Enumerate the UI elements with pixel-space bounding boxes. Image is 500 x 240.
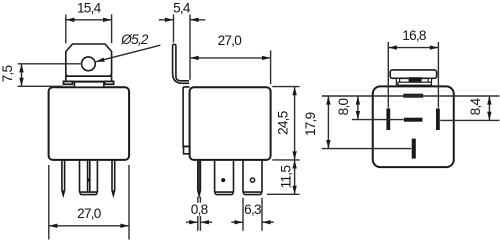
dim 7,5 ext lines	[18, 64, 81, 87]
dim 17,9 line	[327, 96, 329, 149]
dim 17,9 bottom ext line	[322, 148, 412, 150]
relay body (front view)	[49, 87, 130, 160]
svg-text:16,8: 16,8	[402, 28, 426, 43]
svg-text:27,0: 27,0	[218, 33, 243, 48]
shared top ext line	[322, 95, 500, 97]
dim 0,8 line with outside arrows	[186, 221, 212, 223]
bracket lower band	[66, 76, 112, 81]
svg-text:5,4: 5,4	[173, 1, 191, 16]
bracket right foot	[105, 81, 114, 84]
dim 15,4 ext lines	[66, 14, 112, 43]
slot 30 (center)	[404, 118, 423, 122]
bracket left foot	[64, 81, 73, 84]
dim 8,4 bottom ext line	[440, 119, 499, 121]
dim 24,5 line	[294, 87, 296, 160]
bracket hole	[82, 57, 96, 71]
slot 86 (top)	[403, 94, 423, 98]
dim 6,3 line with outside arrows	[231, 221, 274, 223]
cap left tab	[396, 78, 399, 84]
slot 85 (left)	[386, 108, 390, 130]
svg-text:15,4: 15,4	[77, 1, 102, 16]
svg-text:8,0: 8,0	[336, 97, 351, 115]
bracket strap seat	[75, 82, 104, 87]
dim 16,8 ext lines	[388, 42, 438, 108]
slot 85b (right)	[436, 108, 440, 130]
dim 24,5 / 11,5 ext lines	[267, 87, 300, 195]
side latch tab	[184, 146, 190, 153]
dim 8,0 bottom ext line	[352, 119, 404, 121]
svg-text:8,4: 8,4	[468, 97, 483, 115]
cap right tab	[428, 78, 431, 84]
svg-text:0,8: 0,8	[191, 202, 208, 217]
dim 0,8 ext lines	[198, 197, 201, 231]
dim 8,0 line	[357, 96, 359, 120]
dim 5,4 line with outside arrows	[159, 19, 205, 21]
pin 85 thin (front, right)	[112, 160, 115, 195]
svg-text:24,5: 24,5	[275, 111, 290, 135]
svg-text:Ø5,2: Ø5,2	[120, 32, 149, 47]
svg-text:7,5: 7,5	[0, 65, 15, 82]
dim 5,4 ext lines	[174, 14, 191, 79]
dim 16,8 line	[388, 47, 438, 49]
relay body (bottom view)	[373, 86, 454, 167]
relay body (side view)	[190, 87, 271, 160]
dim 27,0 front line	[49, 225, 129, 227]
pin 86 thin (side view)	[198, 160, 201, 196]
dim 11,5 line	[294, 160, 296, 194]
dim 27,0 side ext line right	[270, 50, 272, 84]
dim 27,0 side line	[190, 57, 271, 59]
pin 87 blade (side view, open hole)	[243, 160, 262, 195]
cap lower strip	[398, 82, 432, 85]
svg-text:17,9: 17,9	[303, 112, 318, 136]
dim 27,0 front ext lines	[49, 165, 129, 240]
dim 8,4 line	[488, 96, 490, 120]
mounting bracket face	[66, 44, 112, 76]
dim 15,4 line	[66, 19, 112, 21]
svg-text:6,3: 6,3	[244, 202, 261, 217]
pins 30/87 blades (front, middle)	[80, 160, 98, 192]
svg-text:27,0: 27,0	[77, 206, 102, 221]
slot 87a (bottom)	[412, 139, 416, 159]
bracket cap (bottom view)	[390, 70, 436, 78]
side latch plate	[183, 87, 190, 146]
cap strap bar	[409, 77, 422, 82]
blade hole dot (front)	[87, 178, 90, 181]
bracket strip (side view)	[173, 44, 189, 83]
label diameter 5,2 leader	[96, 45, 160, 61]
pin 30 blade (side view, filled hole)	[215, 160, 234, 195]
pin 86 thin (front, left)	[62, 160, 65, 195]
dim 7,5 line	[21, 64, 23, 87]
dim 6,3 ext lines	[243, 198, 262, 231]
svg-text:11,5: 11,5	[279, 166, 294, 189]
